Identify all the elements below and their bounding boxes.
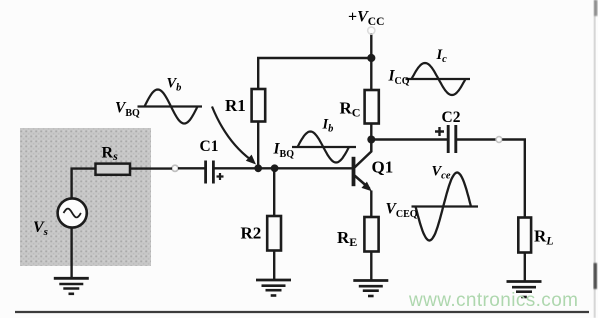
Ib sine wave xyxy=(298,132,350,163)
wire: R1 top drop xyxy=(257,58,259,90)
wire: emitter down to RE xyxy=(370,191,372,219)
Vce sine axis xyxy=(412,205,479,207)
svg-text:R1: R1 xyxy=(225,96,246,115)
svg-text:VCEQ: VCEQ xyxy=(386,201,418,221)
svg-text:www.cntronics.com: www.cntronics.com xyxy=(408,290,578,311)
resistor R2 xyxy=(267,216,281,251)
Ic sine axis xyxy=(406,78,471,80)
svg-text:+VCC: +VCC xyxy=(348,9,384,29)
svg-text:Ib: Ib xyxy=(322,117,334,135)
Ic sine wave xyxy=(412,63,466,95)
wire: C1 to base node and to transistor base xyxy=(215,167,352,169)
node: collector junction dot xyxy=(367,136,375,144)
wire: R2 to ground xyxy=(273,251,275,281)
svg-text:Vb: Vb xyxy=(167,76,182,94)
wire: output terminal to RL corner xyxy=(502,140,525,219)
source Vs circle xyxy=(58,198,87,227)
svg-text:C1: C1 xyxy=(200,138,219,155)
bottom rule line xyxy=(15,311,589,313)
resistor RC xyxy=(365,90,379,124)
svg-text:RE: RE xyxy=(337,228,357,249)
wire: RE to ground xyxy=(370,251,372,281)
wire: R1 bottom to base node xyxy=(257,122,259,169)
sine inside Vs xyxy=(64,209,81,218)
terminal: output open circle xyxy=(496,137,502,143)
svg-text:C2: C2 xyxy=(442,109,461,126)
svg-text:Vce: Vce xyxy=(432,164,451,182)
shaded source box xyxy=(20,128,151,266)
Vce sine wave (inverted) xyxy=(416,173,472,241)
capacitor C1 xyxy=(206,161,224,184)
svg-text:RL: RL xyxy=(534,227,554,248)
wire: Vs to ground xyxy=(70,228,72,279)
terminal: input open circle xyxy=(172,165,178,171)
resistor RL xyxy=(518,218,531,253)
wire: C2 to output terminal xyxy=(457,138,496,140)
scan artifact: right page edge line xyxy=(594,0,598,318)
wire: VCC terminal to top junction xyxy=(370,33,372,58)
node: junction dot (R2) xyxy=(271,164,279,172)
svg-text:VBQ: VBQ xyxy=(115,100,140,120)
svg-text:IBQ: IBQ xyxy=(273,141,295,161)
wire: R2 drop xyxy=(273,168,275,217)
svg-text:Ic: Ic xyxy=(436,47,448,65)
transistor Q1 emitter stroke with arrow xyxy=(355,176,372,192)
wire: Rs left, corner, down to Vs xyxy=(72,169,96,199)
transistor Q1 collector stroke xyxy=(355,140,372,168)
resistor Rs (horizontal) xyxy=(96,164,131,175)
node: Vcc junction dot xyxy=(367,54,375,62)
Ib sine axis xyxy=(292,146,356,148)
svg-text:RC: RC xyxy=(340,99,361,120)
node: base junction dot (R1) xyxy=(254,164,262,172)
ground under RL xyxy=(507,282,542,298)
wire: top rail from R1 to Vcc junction xyxy=(257,57,373,59)
terminal +Vcc (faint circle) xyxy=(368,27,375,34)
curved pointer arrow to base node xyxy=(212,107,256,165)
wire: collector node to C2 xyxy=(371,138,447,140)
wire: Rc bottom to collector node xyxy=(370,124,372,140)
transistor Q1 base bar xyxy=(352,157,356,186)
wire: Rs right to input terminal xyxy=(130,167,172,169)
Vb sine wave xyxy=(145,90,198,124)
svg-text:ICQ: ICQ xyxy=(388,68,410,88)
wire: input terminal to C1 xyxy=(178,167,205,169)
svg-text:R2: R2 xyxy=(241,224,262,243)
resistor RE xyxy=(364,217,378,252)
resistor R1 xyxy=(252,89,266,122)
Vb sine axis xyxy=(138,105,203,107)
ground under RE xyxy=(353,281,388,297)
wire: Vcc junction down to Rc xyxy=(370,58,372,91)
svg-text:Q1: Q1 xyxy=(372,158,394,177)
capacitor C2 xyxy=(435,125,456,153)
wire: RL to ground xyxy=(524,253,526,282)
ground under Vs xyxy=(54,278,89,294)
ground under R2 xyxy=(256,280,291,296)
